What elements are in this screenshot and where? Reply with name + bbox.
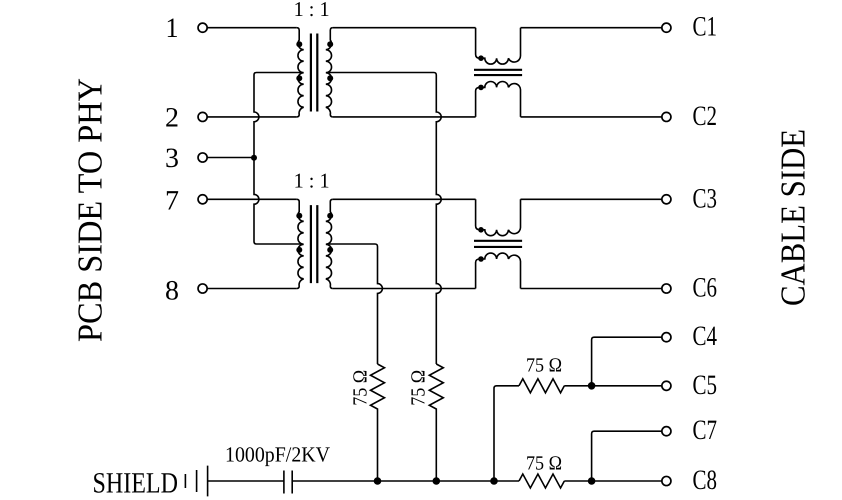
svg-text:75 Ω: 75 Ω xyxy=(350,370,372,406)
svg-text:SHIELD: SHIELD xyxy=(93,467,179,499)
pin 7 terminal xyxy=(198,195,207,204)
T2 primary polarity dot upper xyxy=(296,213,302,219)
choke L1 core xyxy=(474,70,522,75)
wire T1 secondary center-tap down to R2 (hops over C2, C3, C6 wires) xyxy=(329,73,441,365)
wire pin3 to center-tap bus xyxy=(207,157,254,159)
wire pin8 to T2 primary bottom xyxy=(207,288,297,290)
T2 secondary polarity dot upper xyxy=(327,213,333,219)
wire riser to R3 xyxy=(494,386,519,481)
svg-text:CABLE SIDE: CABLE SIDE xyxy=(774,129,813,306)
choke L1 winding B xyxy=(476,81,521,116)
wire pin2 to T1 primary bottom xyxy=(207,116,297,118)
choke L2 core xyxy=(474,241,522,247)
svg-text:7: 7 xyxy=(165,185,179,216)
choke L2 winding A dot xyxy=(478,227,484,233)
junction R3/C4 riser xyxy=(588,382,596,390)
wire R4 to C8 xyxy=(564,480,662,482)
wire choke L1 to C2 xyxy=(521,116,662,118)
svg-text:2: 2 xyxy=(165,102,179,133)
svg-text:C7: C7 xyxy=(693,415,718,446)
junction R1/ground rail xyxy=(374,477,382,485)
pin 2 terminal xyxy=(198,112,207,121)
junction R4/C7 riser xyxy=(588,477,596,485)
resistor R1 75ohm vertical xyxy=(371,364,385,481)
junction pin3/center-tap bus xyxy=(251,155,257,161)
wire R3 to C5 xyxy=(564,385,662,387)
choke L1 winding A dot xyxy=(478,55,484,61)
choke L1 winding B dot xyxy=(478,85,484,91)
wire riser to C7 xyxy=(592,431,662,481)
capacitor C9 1000pF/2KV xyxy=(284,471,292,494)
wire choke L1 to C1 xyxy=(521,27,662,29)
svg-text:1 : 1: 1 : 1 xyxy=(294,169,330,193)
shield terminal bars xyxy=(185,466,207,497)
resistor R2 75ohm vertical xyxy=(429,364,443,481)
svg-text:8: 8 xyxy=(165,276,179,307)
T1 primary polarity dot lower xyxy=(296,75,302,81)
wire pin1 to T1 primary top xyxy=(207,27,297,29)
T1 secondary winding xyxy=(326,28,333,117)
choke L2 winding B xyxy=(476,253,521,288)
terminal C3 xyxy=(662,195,671,204)
terminal C6 xyxy=(662,284,671,293)
T2 primary polarity dot lower xyxy=(296,247,302,253)
wire capacitor to R4 xyxy=(292,480,519,482)
T1 primary polarity dot upper xyxy=(296,41,302,47)
junction R3 riser/ground rail xyxy=(490,477,498,485)
wire primary center-tap bus (T1 ct to T2 ct with hops over pin2/pin7 wires) xyxy=(254,73,301,245)
pin 3 terminal xyxy=(198,153,207,162)
T2 secondary winding xyxy=(326,199,333,288)
transformer T1 primary winding xyxy=(297,28,304,117)
svg-text:C2: C2 xyxy=(693,101,718,132)
wire choke L2 to C3 xyxy=(521,198,662,200)
svg-text:3: 3 xyxy=(165,143,179,174)
terminal C4 xyxy=(662,333,671,342)
T1 secondary polarity dot lower xyxy=(327,75,333,81)
svg-text:1 : 1: 1 : 1 xyxy=(294,0,330,21)
wire T2 secondary bottom to choke L2 xyxy=(333,288,476,290)
svg-text:75 Ω: 75 Ω xyxy=(526,453,562,475)
terminal C8 xyxy=(662,476,671,485)
T1 secondary polarity dot upper xyxy=(327,41,333,47)
transformer T2 primary winding xyxy=(297,199,304,288)
svg-text:1: 1 xyxy=(166,13,179,44)
wire T1 secondary bottom to choke L1 xyxy=(333,116,476,118)
svg-text:C3: C3 xyxy=(693,183,718,214)
resistor R4 75ohm horizontal on rail xyxy=(519,474,564,488)
terminal C2 xyxy=(662,112,671,121)
T2 secondary polarity dot lower xyxy=(327,247,333,253)
wire choke L2 to C6 xyxy=(521,288,662,290)
resistor R3 75ohm horizontal xyxy=(519,379,564,393)
choke L2 winding A xyxy=(476,199,521,235)
wire riser to C4 xyxy=(592,337,662,386)
svg-text:PCB SIDE TO PHY: PCB SIDE TO PHY xyxy=(71,78,110,342)
T2 core xyxy=(311,205,317,283)
svg-text:75 Ω: 75 Ω xyxy=(526,355,562,377)
T1 core xyxy=(311,34,317,112)
pin 1 terminal xyxy=(198,23,207,32)
svg-text:C6: C6 xyxy=(693,273,718,304)
wire T2 secondary center-tap down to R1 (hop over C6 wire) xyxy=(329,244,382,364)
svg-text:75 Ω: 75 Ω xyxy=(408,370,430,406)
wire pin7 to T2 primary top xyxy=(207,198,297,200)
choke L2 winding B dot xyxy=(478,256,484,262)
terminal C1 xyxy=(662,23,671,32)
wire T1 secondary top to choke L1 xyxy=(333,27,476,29)
wire T2 secondary top to choke L2 xyxy=(333,198,476,200)
terminal C5 xyxy=(662,381,671,390)
pin 8 terminal xyxy=(198,284,207,293)
svg-text:1000pF/2KV: 1000pF/2KV xyxy=(225,443,330,467)
terminal C7 xyxy=(662,427,671,436)
svg-text:C4: C4 xyxy=(693,321,718,352)
svg-text:C1: C1 xyxy=(693,12,718,43)
svg-text:C5: C5 xyxy=(693,370,718,401)
svg-text:C8: C8 xyxy=(693,465,718,496)
junction R2/ground rail xyxy=(433,477,441,485)
choke L1 winding A xyxy=(476,28,521,64)
wire shield to capacitor xyxy=(208,480,284,482)
